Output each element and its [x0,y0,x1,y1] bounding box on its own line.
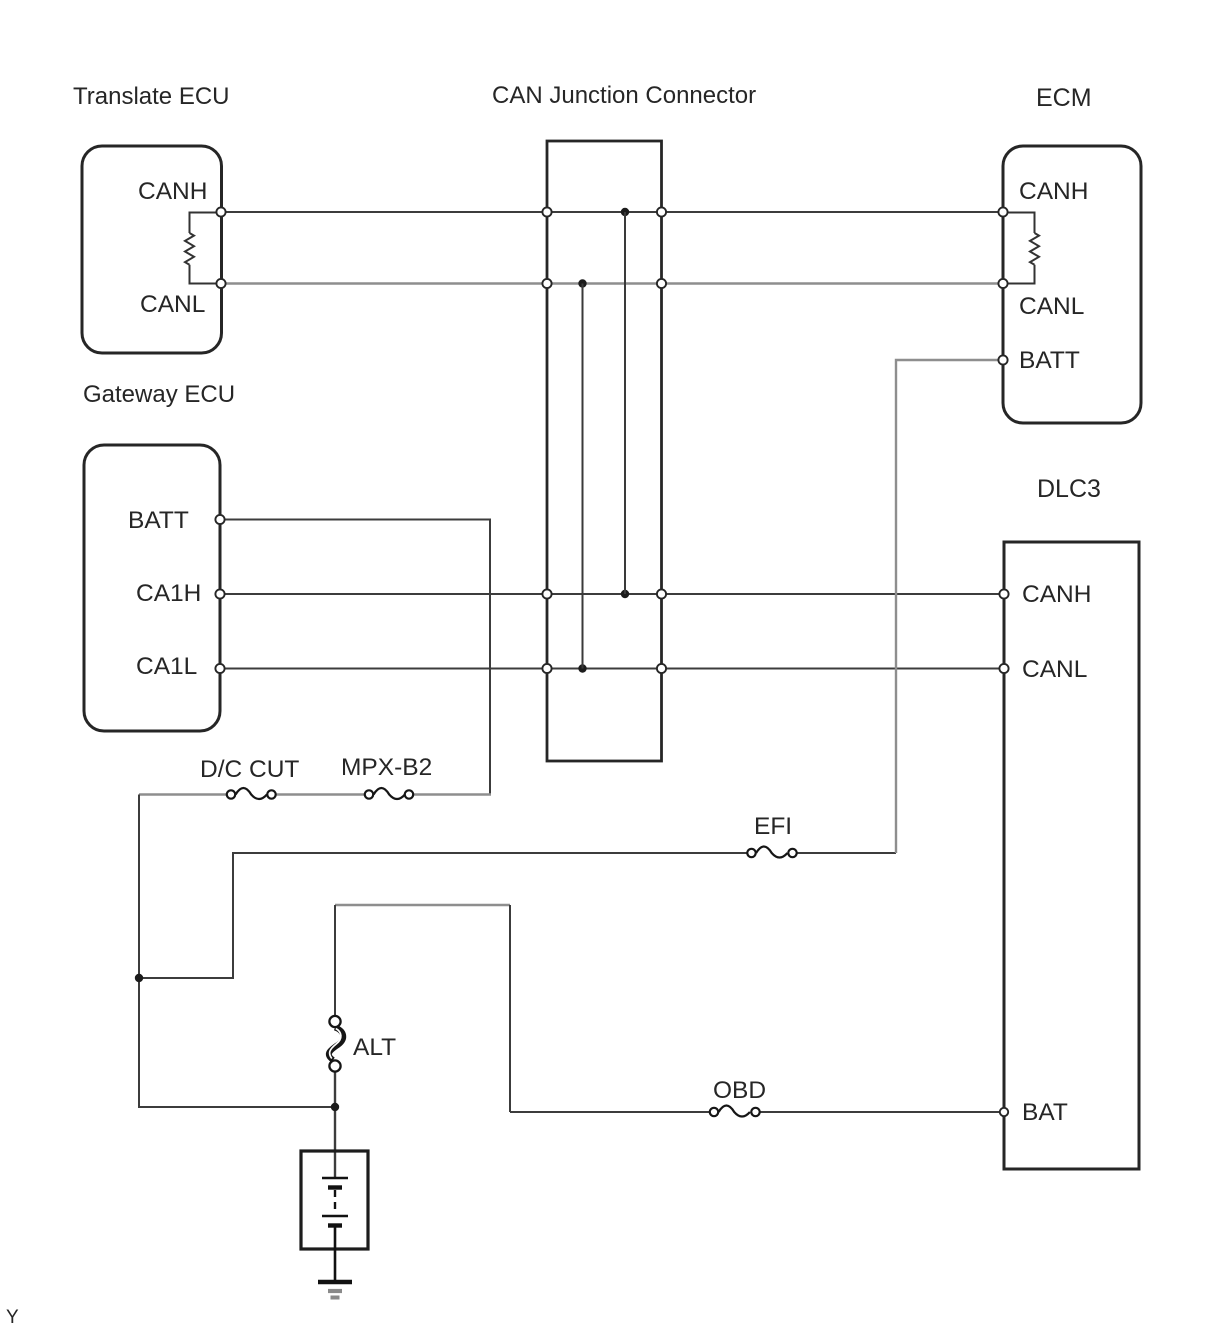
junction dot CANL/junction line [578,279,586,287]
pin Translate CANL [216,279,225,288]
svg-text:BATT: BATT [1019,347,1080,374]
wire ECM BATT gray path [896,360,1003,853]
box ECM [1003,146,1141,423]
svg-text:CANL: CANL [140,291,205,318]
svg-text:Translate ECU: Translate ECU [73,83,230,110]
svg-text:Gateway ECU: Gateway ECU [83,381,235,408]
svg-text:BAT: BAT [1022,1099,1068,1126]
wire fuse row (D/C CUT, MPX-B2) [139,793,491,796]
svg-text:D/C CUT: D/C CUT [200,756,299,783]
svg-text:CAN Junction Connector: CAN Junction Connector [492,82,756,109]
svg-text:CANL: CANL [1022,656,1087,683]
junction dot ALT bottom / battery feed [331,1103,339,1111]
box Translate ECU [82,146,222,353]
wire CA1H bus (Gateway ECU to DLC3 through junction) [220,593,1004,595]
resistor terminating (ECM internal) [1006,213,1039,284]
pin junction left CA1H [542,589,551,598]
wire Gateway BATT to fuse row [220,520,490,795]
wire down from ALT branch to OBD row [509,905,511,1112]
junction dot CANH/junction line [621,208,629,216]
pin ECM CANL [998,279,1007,288]
pin DLC3 BAT [1000,1108,1008,1116]
pin Gateway BATT [215,515,224,524]
fusible link ALT [329,1016,343,1072]
pin junction left CANL [542,279,551,288]
wire ALT vertical (top circle feed) [334,905,336,1016]
fuse EFI [747,847,796,858]
pin junction left CA1L [542,664,551,673]
wire ALT bottom to battery [334,1072,336,1178]
junction dot CA1H/junction line [621,590,629,598]
box DLC3 [1004,542,1139,1169]
svg-text:CANH: CANH [1019,178,1088,205]
pin junction right CA1L [657,664,666,673]
svg-text:CANH: CANH [138,178,207,205]
svg-text:DLC3: DLC3 [1037,475,1101,503]
wire CANL bus (Translate ECU to ECM through junction) [221,282,1003,285]
battery cell symbol [322,1178,348,1282]
pin ECM BATT [998,355,1007,364]
svg-text:CA1H: CA1H [136,580,201,607]
wire junction internal CANL-CA1L [582,284,584,669]
resistor terminating (Translate ECU internal) [185,213,218,284]
svg-text:EFI: EFI [754,813,792,840]
wire OBD row to DLC3 BAT [510,1111,710,1113]
svg-text:OBD: OBD [713,1077,766,1104]
fuse D/C CUT [227,788,276,799]
box Gateway ECU [84,445,220,731]
wire junction internal CANH-CA1H [624,212,626,594]
pin junction right CANH [657,207,666,216]
svg-text:MPX-B2: MPX-B2 [341,754,432,781]
pin ECM CANH [998,207,1007,216]
svg-text:CANH: CANH [1022,581,1091,608]
svg-text:CA1L: CA1L [136,653,197,680]
junction dot CA1L/junction line [578,664,586,672]
box CAN Junction Connector [547,141,662,761]
svg-text:BATT: BATT [128,507,189,534]
wire left vertical from D/C CUT down to battery junction [139,795,335,1108]
fuse MPX-B2 [365,788,413,799]
pin junction right CANL [657,279,666,288]
pin DLC3 CANH [999,589,1008,598]
svg-text:ALT: ALT [353,1034,396,1061]
wire EFI fuse to corner [797,852,896,854]
pin Gateway CA1H [215,589,224,598]
pin Translate CANH [216,207,225,216]
wire ALT top branch (gray horizontal) [335,904,510,907]
pin junction left CANH [542,207,551,216]
ground symbol [318,1282,352,1298]
battery box [301,1151,368,1249]
wire CANH bus (Translate ECU to ECM through junction) [221,211,1003,213]
svg-text:Y: Y [6,1307,19,1328]
wire CA1L bus (Gateway ECU to DLC3 through junction) [220,668,1004,670]
junction dot EFI branch / left vertical [135,974,143,982]
pin Gateway CA1L [215,664,224,673]
pin DLC3 CANL [999,664,1008,673]
wire EFI branch (EFI row, down, left to junction A) [139,853,747,978]
fuse OBD [710,1106,760,1117]
svg-text:ECM: ECM [1036,84,1092,112]
pin junction right CA1H [657,589,666,598]
svg-text:CANL: CANL [1019,293,1084,320]
